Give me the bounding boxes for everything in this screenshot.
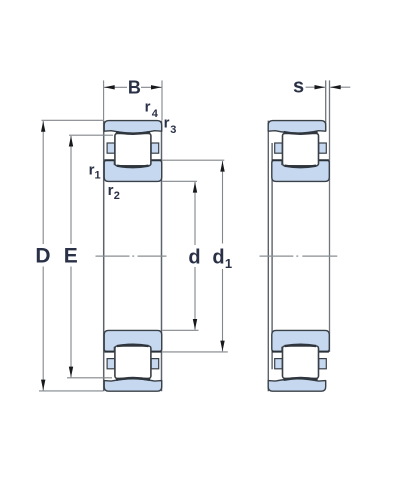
- dimension d1 line: [222, 161, 224, 351]
- svg-text:d: d: [212, 247, 224, 269]
- dimension E bottom extension line: [67, 377, 112, 379]
- dimension B line: [104, 86, 162, 88]
- dimension d1 arrowheads: [220, 161, 224, 351]
- dimension E line: [70, 136, 72, 378]
- svg-text:r: r: [164, 115, 170, 132]
- label r1: [89, 162, 101, 182]
- left bearing centerline (dash-dot): [96, 255, 167, 257]
- dimension d line: [194, 182, 196, 330]
- dimension s arrowheads: [315, 85, 341, 89]
- svg-text:D: D: [35, 245, 50, 268]
- dimension B right extension line: [161, 80, 163, 120]
- svg-text:4: 4: [152, 108, 159, 120]
- dimension B left extension line: [103, 80, 105, 120]
- svg-text:E: E: [64, 245, 78, 268]
- dimension d bottom extension line: [162, 329, 198, 331]
- right bearing inner ring with flanges and roller, bottom cross-section: [272, 330, 330, 379]
- svg-text:1: 1: [225, 256, 232, 271]
- left bearing inner ring with flanges and roller, bottom cross-section: [104, 330, 162, 379]
- dimension d1 top extension line: [162, 159, 225, 161]
- svg-text:d: d: [188, 247, 200, 269]
- left bearing outer ring, top cross-section: [104, 121, 162, 133]
- svg-text:s: s: [293, 75, 304, 97]
- label r2: [108, 182, 120, 202]
- dimension s line: [306, 86, 351, 88]
- right bearing inner ring right face line / s extension line: [329, 80, 331, 352]
- svg-text:r: r: [108, 182, 114, 199]
- right bearing outer ring right face line / s extension line: [325, 80, 327, 131]
- label r4: [145, 99, 159, 120]
- right bearing outer ring left face silhouette line: [267, 121, 269, 392]
- dimension E arrowheads: [69, 136, 73, 377]
- dimension d1 bottom extension line: [162, 351, 228, 353]
- left bearing outer ring, bottom cross-section: [104, 379, 162, 391]
- svg-text:3: 3: [170, 124, 176, 136]
- dimension B arrowheads: [104, 85, 162, 89]
- label r3: [164, 115, 177, 136]
- dimension E top extension line: [69, 134, 113, 136]
- dimension D line: [42, 121, 44, 391]
- dimension D top extension line: [42, 119, 104, 121]
- svg-text:2: 2: [114, 190, 120, 202]
- label d1: [212, 247, 232, 272]
- right bearing inner ring with flanges and roller, top cross-section (displaced by s): [272, 132, 330, 181]
- left bearing inner ring with flanges and roller, top cross-section: [104, 132, 162, 181]
- dimension d top extension line: [162, 180, 197, 182]
- dimension D bottom extension line: [39, 390, 103, 392]
- dimension d arrowheads: [193, 182, 197, 330]
- left bearing left face silhouette line: [103, 121, 105, 392]
- right bearing outer ring, bottom cross-section: [268, 379, 326, 391]
- right bearing inner ring left face silhouette line: [271, 143, 273, 369]
- left bearing right face silhouette line: [161, 121, 163, 392]
- right bearing centerline (dash-dot): [260, 255, 338, 257]
- svg-text:B: B: [128, 78, 141, 98]
- svg-text:r: r: [145, 99, 151, 116]
- dimension D arrowheads: [41, 121, 45, 390]
- svg-text:1: 1: [95, 169, 101, 181]
- right bearing outer ring, top cross-section: [268, 121, 326, 133]
